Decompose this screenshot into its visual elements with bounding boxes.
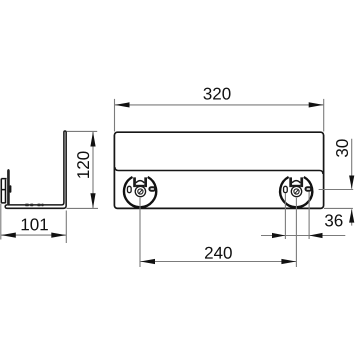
- ext 240 left (screw L): [139, 198, 141, 267]
- oval pill right: [149, 187, 155, 191]
- ext 320 left: [114, 99, 116, 132]
- wall bracket box (side view): [1, 179, 6, 204]
- screw: [291, 186, 301, 196]
- dim line 101: [1, 218, 67, 237]
- ext hole-height right (30): [319, 189, 354, 191]
- bracket right: [280, 177, 312, 207]
- dim line 240: [140, 247, 296, 264]
- L-profile shelf body (side view): [5, 131, 66, 208]
- extension lines (thin): [1, 99, 353, 267]
- ext 320 right: [323, 99, 325, 132]
- oval pill right: [306, 187, 312, 191]
- back wall bar (wall side upright): [7, 169, 9, 205]
- bracket circle: [124, 177, 156, 207]
- clamp lower bar: [292, 185, 300, 187]
- oval hole left: [284, 186, 288, 192]
- shelf outline front view: [114, 132, 323, 208]
- oval hole left: [127, 186, 131, 192]
- ext 101 right: [65, 211, 67, 244]
- clamp bail arc: [292, 181, 300, 183]
- clamp lower bar: [136, 185, 144, 187]
- ext 101 left: [0, 204, 2, 240]
- bracket left: [124, 177, 156, 207]
- dim line 30 (arrows outside, vertical): [336, 139, 354, 226]
- ext 240 right (screw R): [295, 198, 297, 267]
- ext 36 left oval: [284, 194, 286, 240]
- fold line: [115, 167, 323, 174]
- dim line 36 (arrows outside): [261, 214, 345, 238]
- ext bottom shared (120 / 30): [67, 207, 353, 209]
- clamp bail arc: [136, 181, 144, 183]
- screw: [135, 186, 145, 196]
- dim line 120: [77, 132, 95, 209]
- locking nub (side view pin): [9, 185, 11, 193]
- dim line 320: [115, 88, 324, 108]
- bracket circle: [280, 177, 312, 207]
- flange tick details: [25, 204, 43, 207]
- ext 120 top: [67, 130, 97, 132]
- clamp walls: [291, 177, 302, 187]
- clamp walls: [135, 177, 146, 187]
- ext 36 right oval: [308, 192, 310, 240]
